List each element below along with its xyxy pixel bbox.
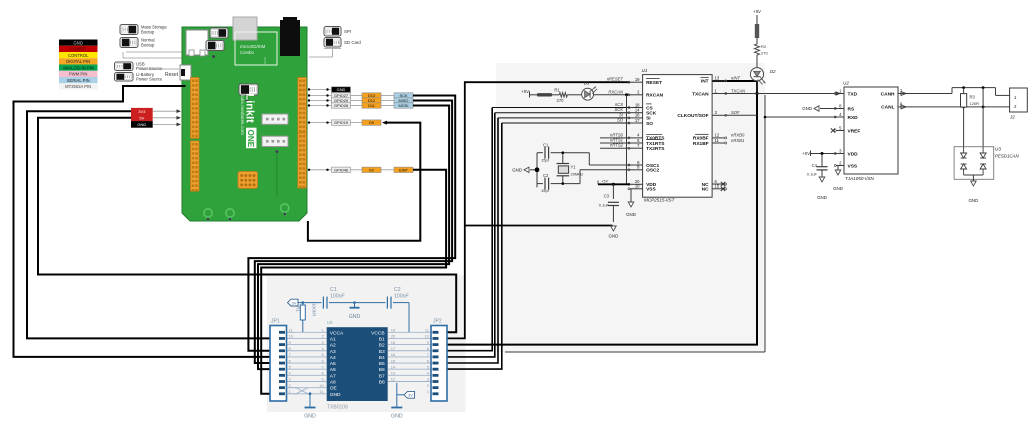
svg-text:Power Source: Power Source (136, 66, 163, 71)
svg-text:11: 11 (715, 138, 720, 143)
svg-text:15pf: 15pf (541, 158, 550, 163)
svg-text:B1: B1 (379, 336, 385, 342)
svg-text:3V: 3V (292, 300, 297, 305)
svg-text:B2: B2 (379, 343, 385, 349)
svg-text:R3: R3 (970, 95, 976, 100)
svg-text:MOSI: MOSI (399, 103, 409, 108)
svg-text:D2: D2 (369, 167, 374, 172)
svg-text:100kR: 100kR (312, 303, 317, 317)
svg-text:SO: SO (617, 118, 624, 123)
svg-text:R1: R1 (554, 88, 560, 93)
svg-text:INT: INT (701, 79, 709, 85)
svg-text:VCCA: VCCA (330, 330, 344, 336)
svg-text:J2: J2 (1009, 115, 1015, 120)
svg-text:TXB0108: TXB0108 (327, 405, 348, 411)
svg-text:RESET: RESET (646, 80, 662, 86)
svg-text:RXCAN: RXCAN (646, 93, 664, 99)
svg-text:+5V: +5V (753, 9, 762, 14)
svg-text:POWER: POWER (70, 47, 86, 52)
svg-text:R1: R1 (296, 306, 301, 312)
svg-text:PWM PIN: PWM PIN (69, 72, 87, 77)
svg-text:A6: A6 (330, 367, 336, 373)
svg-text:D9: D9 (369, 120, 374, 125)
svg-text:TXD: TXD (848, 91, 858, 97)
svg-text:Power Source: Power Source (136, 76, 163, 81)
svg-text:20: 20 (391, 334, 396, 339)
svg-text:15: 15 (391, 358, 396, 363)
svg-text:Bootup: Bootup (141, 30, 155, 35)
svg-text:A3: A3 (330, 349, 336, 355)
svg-text:B6: B6 (379, 367, 385, 373)
svg-text:CS: CS (646, 105, 653, 111)
svg-text:TXCAN: TXCAN (692, 91, 709, 97)
svg-text:OSC2: OSC2 (646, 168, 659, 174)
svg-text:15: 15 (715, 184, 720, 189)
svg-text:nINT: nINT (731, 76, 741, 81)
svg-text:ANALOG-IN PIN: ANALOG-IN PIN (63, 65, 94, 70)
svg-text:MCP2515-I/ST: MCP2515-I/ST (644, 198, 676, 203)
svg-text:OE: OE (330, 386, 338, 392)
svg-text:Combo: Combo (240, 50, 254, 55)
svg-text:270: 270 (761, 51, 768, 56)
svg-text:VCCB: VCCB (371, 330, 385, 336)
svg-text:R2: R2 (761, 44, 767, 49)
svg-text:GND: GND (609, 234, 619, 239)
svg-text:GND: GND (304, 414, 316, 420)
svg-text:12: 12 (391, 377, 396, 382)
svg-text:270: 270 (557, 98, 565, 103)
svg-text:5V: 5V (139, 115, 144, 120)
svg-text:B7: B7 (379, 373, 385, 379)
svg-text:3V: 3V (408, 393, 413, 398)
svg-text:10: 10 (425, 334, 430, 339)
svg-text:DIGITAL PIN: DIGITAL PIN (66, 59, 90, 64)
svg-text:CLKOUT/SOF: CLKOUT/SOF (677, 113, 708, 119)
svg-text:ONE: ONE (246, 130, 255, 148)
svg-text:19: 19 (391, 328, 396, 333)
svg-text:GND: GND (626, 212, 636, 217)
svg-text:C1: C1 (330, 287, 337, 293)
svg-text:RX0BF: RX0BF (693, 136, 709, 142)
svg-text:JP2: JP2 (433, 319, 442, 325)
svg-text:B5: B5 (379, 361, 385, 367)
svg-text:GND: GND (512, 168, 522, 173)
svg-text:C4: C4 (812, 163, 818, 168)
svg-text:VSS: VSS (848, 163, 858, 169)
svg-text:labs.mediatek.com: labs.mediatek.com (239, 95, 245, 135)
svg-text:A7: A7 (330, 373, 336, 379)
svg-text:A5: A5 (330, 361, 336, 367)
svg-text:U5: U5 (327, 320, 333, 325)
svg-text:SCK: SCK (646, 111, 657, 117)
svg-text:JP1: JP1 (271, 319, 280, 325)
svg-text:SERIAL PIN: SERIAL PIN (67, 78, 90, 83)
svg-text:GND: GND (802, 106, 812, 111)
svg-text:A4: A4 (330, 355, 336, 361)
svg-text:C2: C2 (543, 173, 549, 178)
svg-text:PESD1CAN: PESD1CAN (995, 154, 1019, 159)
svg-text:LinkIt: LinkIt (244, 94, 256, 124)
svg-text:TX1RTS: TX1RTS (646, 141, 665, 147)
svg-text:MT2502A PIN: MT2502A PIN (65, 84, 91, 89)
svg-text:VDD: VDD (848, 151, 859, 157)
svg-text:120R: 120R (970, 101, 980, 106)
svg-text:GPIO28: GPIO28 (334, 103, 348, 108)
svg-text:17: 17 (635, 118, 640, 123)
svg-text:19: 19 (635, 77, 640, 82)
svg-text:GND: GND (391, 414, 403, 420)
svg-text:CANL: CANL (881, 105, 894, 111)
svg-text:VSS: VSS (646, 187, 656, 193)
svg-text:14: 14 (391, 364, 396, 369)
svg-text:VREF: VREF (848, 128, 861, 134)
svg-text:SPI: SPI (344, 29, 351, 34)
svg-text:SOF: SOF (731, 110, 740, 115)
svg-text:SD Card: SD Card (344, 40, 361, 45)
svg-text:GPIO46: GPIO46 (334, 167, 348, 172)
svg-text:GND: GND (330, 392, 341, 398)
svg-text:NC: NC (702, 187, 709, 193)
svg-text:A2: A2 (330, 343, 336, 349)
svg-text:B4: B4 (379, 355, 385, 361)
svg-text:GND: GND (137, 122, 146, 127)
svg-text:17: 17 (391, 346, 396, 351)
svg-text:D11: D11 (368, 103, 375, 108)
svg-text:100nF: 100nF (394, 294, 409, 300)
svg-text:+5V: +5V (601, 180, 608, 184)
svg-text:Bootup: Bootup (141, 43, 155, 48)
svg-text:100nF: 100nF (330, 294, 345, 300)
svg-text:0.1uF: 0.1uF (807, 172, 818, 177)
svg-text:nRESET: nRESET (607, 77, 624, 82)
svg-text:B8: B8 (379, 380, 385, 386)
svg-text:+5V: +5V (802, 151, 811, 156)
svg-text:TX0RTS: TX0RTS (646, 136, 665, 142)
svg-text:3V3: 3V3 (138, 109, 146, 114)
svg-text:10: 10 (635, 184, 640, 189)
svg-text:B3: B3 (379, 349, 385, 355)
svg-text:D2: D2 (770, 69, 776, 74)
svg-text:TXCAN: TXCAN (731, 88, 746, 93)
svg-text:13: 13 (715, 76, 720, 81)
svg-text:GND: GND (74, 40, 83, 45)
svg-text:RX1BF: RX1BF (693, 141, 709, 147)
svg-text:C2: C2 (394, 287, 401, 293)
svg-text:RXCAN: RXCAN (608, 89, 624, 94)
svg-text:GND: GND (349, 314, 361, 320)
svg-text:U2: U2 (843, 81, 849, 86)
svg-text:SO: SO (646, 121, 653, 127)
svg-text:EINT: EINT (399, 167, 408, 172)
svg-text:20MHz: 20MHz (571, 172, 584, 177)
svg-text:A1: A1 (330, 336, 336, 342)
svg-text:GND: GND (337, 87, 346, 92)
svg-text:10: 10 (319, 383, 324, 388)
svg-text:D1: D1 (584, 81, 590, 86)
svg-text:Y1: Y1 (571, 165, 577, 170)
svg-text:U3: U3 (995, 147, 1001, 152)
svg-text:CONTROL: CONTROL (68, 53, 89, 58)
svg-text:15pf: 15pf (541, 188, 550, 193)
svg-text:GND: GND (817, 195, 827, 200)
svg-text:C1: C1 (543, 143, 549, 148)
svg-text:RXD: RXD (848, 115, 859, 121)
svg-text:GND: GND (833, 186, 843, 191)
svg-text:TJA1050-I/SN: TJA1050-I/SN (845, 176, 875, 181)
svg-text:10: 10 (289, 334, 294, 339)
svg-text:C3: C3 (604, 194, 610, 199)
svg-text:GND: GND (969, 198, 979, 203)
svg-text:16: 16 (391, 352, 396, 357)
svg-text:Reset: Reset (165, 72, 179, 78)
svg-text:18: 18 (391, 340, 396, 345)
svg-text:+5V: +5V (521, 89, 530, 94)
svg-text:SI: SI (646, 116, 651, 122)
svg-text:microSD/SIM: microSD/SIM (240, 44, 266, 49)
svg-text:U1: U1 (642, 68, 648, 73)
svg-text:CANH: CANH (881, 91, 895, 97)
svg-text:TX2RTS: TX2RTS (646, 146, 665, 152)
svg-text:13: 13 (391, 371, 396, 376)
svg-text:A8: A8 (330, 380, 336, 386)
svg-text:RS: RS (848, 106, 855, 112)
svg-text:GPIO19: GPIO19 (334, 120, 348, 125)
svg-text:nRXB1: nRXB1 (731, 138, 744, 143)
svg-text:0.1uF: 0.1uF (599, 203, 610, 208)
